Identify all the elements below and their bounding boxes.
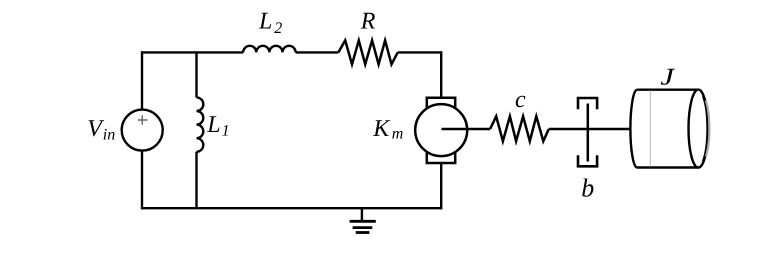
svg-text:V: V bbox=[87, 116, 104, 142]
svg-text:K: K bbox=[372, 116, 391, 142]
inductor L1 bbox=[197, 97, 230, 151]
wire: down into motor top brush bbox=[440, 51, 442, 98]
svg-text:b: b bbox=[581, 174, 594, 203]
wire: L1 branch bottom bbox=[195, 152, 197, 208]
shaft: motor to spring bbox=[442, 128, 491, 131]
wire: bottom rail bbox=[142, 207, 441, 209]
svg-text:L: L bbox=[206, 112, 220, 138]
shaft: spring to flywheel bbox=[549, 128, 631, 131]
ground bbox=[350, 208, 376, 232]
voltage source Vin bbox=[87, 110, 162, 151]
wire: L1 branch top bbox=[195, 52, 197, 97]
inertia J flywheel cylinder bbox=[630, 64, 709, 167]
wire: source top lead bbox=[141, 51, 143, 109]
svg-text:L: L bbox=[258, 8, 272, 34]
wire: motor bottom lead bbox=[440, 163, 442, 209]
svg-text:c: c bbox=[515, 87, 526, 113]
wire: between L2 and R bbox=[296, 51, 339, 53]
svg-text:2: 2 bbox=[274, 20, 282, 37]
svg-text:m: m bbox=[392, 126, 404, 143]
svg-text:in: in bbox=[103, 127, 115, 144]
damper bearing b bbox=[578, 98, 597, 203]
motor U1 Km bbox=[372, 98, 467, 163]
spring c bbox=[490, 87, 549, 141]
inductor L2 bbox=[243, 8, 295, 52]
svg-text:J: J bbox=[660, 64, 675, 90]
resistor R bbox=[338, 9, 397, 65]
wire: R to top-right corner bbox=[398, 51, 442, 53]
svg-text:R: R bbox=[360, 9, 376, 35]
svg-text:1: 1 bbox=[222, 123, 230, 140]
wire: source bottom lead bbox=[141, 151, 143, 210]
wire: top rail from source to L2 bbox=[142, 51, 243, 53]
